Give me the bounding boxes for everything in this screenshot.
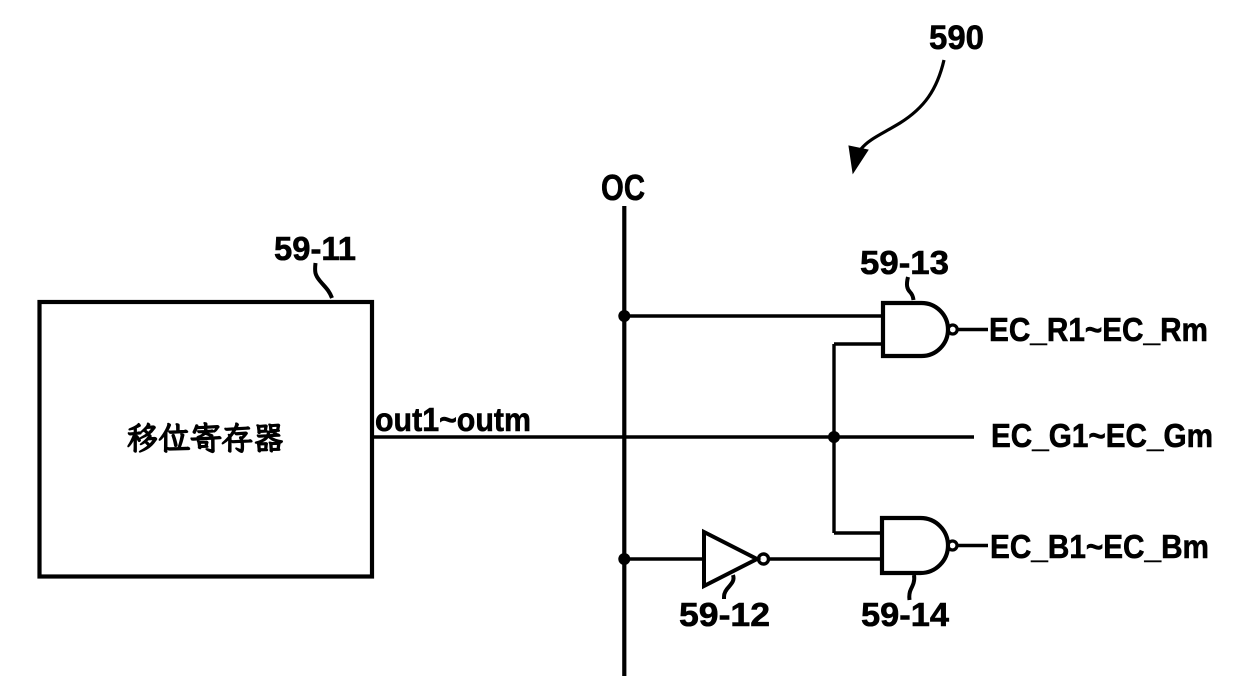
NAND gate 59-13 output bubble	[948, 325, 957, 334]
inverter 59-12 triangle	[704, 532, 757, 586]
wire OC junction to NAND 59-13 top input	[624, 314, 883, 317]
wire NAND 59-13 output	[957, 328, 988, 331]
inverter 59-12 output bubble	[759, 554, 769, 564]
NAND gate 59-14 output bubble	[948, 541, 957, 550]
arrow 590 shaft	[861, 60, 944, 149]
junction dot on EC_G bus	[828, 431, 840, 443]
leader 59-13	[907, 277, 914, 300]
wire stub to NAND 59-14 top input	[834, 531, 882, 534]
svg-text:OC: OC	[601, 167, 645, 208]
svg-text:EC_B1~EC_Bm: EC_B1~EC_Bm	[990, 528, 1209, 565]
svg-text:590: 590	[929, 19, 984, 57]
wire vertical branch x=834	[832, 344, 835, 533]
junction dot bottom (OC to inverter)	[618, 553, 630, 565]
wire OC junction to inverter input	[624, 557, 704, 560]
wire NAND 59-14 output	[957, 544, 988, 547]
box 59-11 shift register	[40, 302, 373, 577]
NAND gate 59-14 body	[882, 518, 948, 573]
svg-text:59-12: 59-12	[679, 596, 770, 633]
wire out1~outm to EC_G bus	[372, 435, 974, 438]
svg-text:59-13: 59-13	[860, 244, 949, 281]
wire NAND 59-13 bottom input stub	[834, 342, 883, 345]
leader 59-12	[724, 575, 734, 599]
wire OC vertical	[622, 206, 626, 676]
svg-text:EC_G1~EC_Gm: EC_G1~EC_Gm	[991, 417, 1213, 454]
wire inverter output to NAND 59-14 bottom input	[769, 557, 883, 560]
svg-text:59-14: 59-14	[861, 596, 950, 633]
arrow 590 head	[849, 146, 868, 173]
svg-text:out1~outm: out1~outm	[375, 401, 531, 438]
leader 59-14	[909, 575, 914, 600]
NAND gate 59-13 body	[883, 303, 948, 356]
shift register text 移位寄存器	[128, 423, 282, 453]
junction dot top (OC to 59-13)	[618, 310, 630, 322]
svg-text:EC_R1~EC_Rm: EC_R1~EC_Rm	[989, 311, 1208, 348]
leader 59-11	[315, 263, 332, 298]
svg-text:59-11: 59-11	[274, 230, 356, 267]
